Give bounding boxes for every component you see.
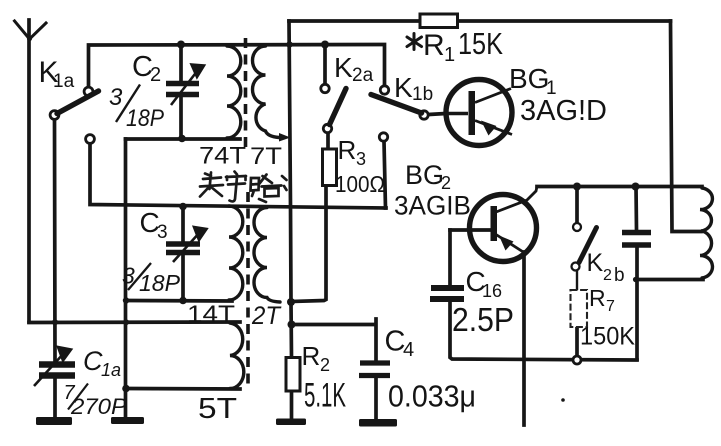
svg-text:3AGIB: 3AGIB [394, 191, 471, 221]
svg-text:C: C [83, 346, 103, 376]
svg-text:2: 2 [603, 267, 612, 284]
svg-text:18P: 18P [139, 270, 181, 296]
svg-text:7: 7 [606, 298, 615, 315]
svg-text:R: R [338, 135, 357, 165]
svg-text:3: 3 [356, 149, 366, 169]
svg-text:14T: 14T [187, 301, 235, 328]
svg-text:5T: 5T [198, 393, 237, 425]
svg-text:1a: 1a [101, 360, 121, 380]
svg-text:K: K [334, 52, 353, 83]
svg-text:7T: 7T [250, 143, 282, 170]
svg-text:3AG!D: 3AG!D [520, 95, 607, 127]
svg-text:2a: 2a [352, 65, 374, 86]
svg-text:R: R [423, 29, 445, 62]
svg-text:R: R [589, 285, 606, 311]
svg-text:15K: 15K [458, 26, 503, 61]
svg-text:1b: 1b [412, 84, 433, 105]
svg-text:16: 16 [482, 281, 502, 301]
svg-text:2T: 2T [251, 302, 282, 330]
svg-text:150K: 150K [580, 323, 635, 351]
svg-text:BG: BG [509, 63, 549, 94]
svg-text:b: b [614, 265, 625, 286]
svg-text:270P: 270P [70, 394, 127, 419]
svg-text:1a: 1a [53, 71, 75, 92]
svg-text:3: 3 [157, 222, 168, 243]
svg-text:74T: 74T [199, 143, 246, 170]
svg-text:K: K [587, 249, 604, 277]
svg-text:1: 1 [444, 44, 455, 66]
svg-text:2: 2 [320, 355, 330, 375]
svg-text:K: K [394, 72, 413, 103]
svg-text:BG: BG [405, 160, 444, 190]
svg-text:100Ω: 100Ω [335, 171, 385, 197]
svg-text:4: 4 [403, 339, 414, 361]
svg-text:3: 3 [109, 84, 123, 111]
svg-text:2: 2 [150, 64, 161, 86]
svg-text:18P: 18P [126, 105, 164, 132]
svg-text:2.5P: 2.5P [452, 301, 514, 338]
svg-text:0.033μ: 0.033μ [388, 379, 476, 414]
svg-text:R: R [302, 341, 321, 371]
svg-text:5.1K: 5.1K [304, 377, 346, 415]
